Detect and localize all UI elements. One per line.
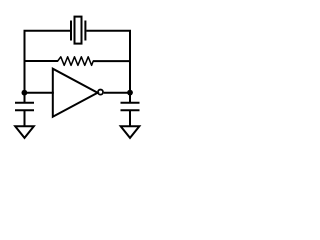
inverter U1 bubble (98, 90, 103, 95)
wire left vertical (24, 31, 26, 103)
node junction dot left (22, 90, 28, 96)
ground symbol right (121, 126, 140, 138)
capacitor C2 top plate (121, 102, 140, 104)
wire C1 to ground (24, 110, 26, 126)
wire top rail left segment (25, 30, 71, 31)
ground symbol left (15, 126, 34, 138)
inverter U1 triangle (53, 69, 98, 117)
wire resistor rail right (93, 60, 130, 62)
wire inverter input (25, 92, 54, 94)
wire inverter output (104, 92, 130, 94)
wire top rail right segment (86, 31, 130, 32)
wire right vertical (129, 31, 131, 103)
wire resistor rail left (25, 60, 58, 62)
node junction dot right (127, 90, 133, 96)
crystal Y1 body (75, 17, 82, 44)
capacitor C2 bottom plate (121, 109, 140, 111)
wire C2 to ground (129, 110, 131, 126)
crystal Y1 left plate (70, 21, 72, 41)
capacitor C1 bottom plate (15, 109, 34, 111)
crystal Y1 right plate (84, 21, 86, 41)
resistor R1 (58, 57, 93, 66)
capacitor C1 top plate (15, 102, 34, 104)
